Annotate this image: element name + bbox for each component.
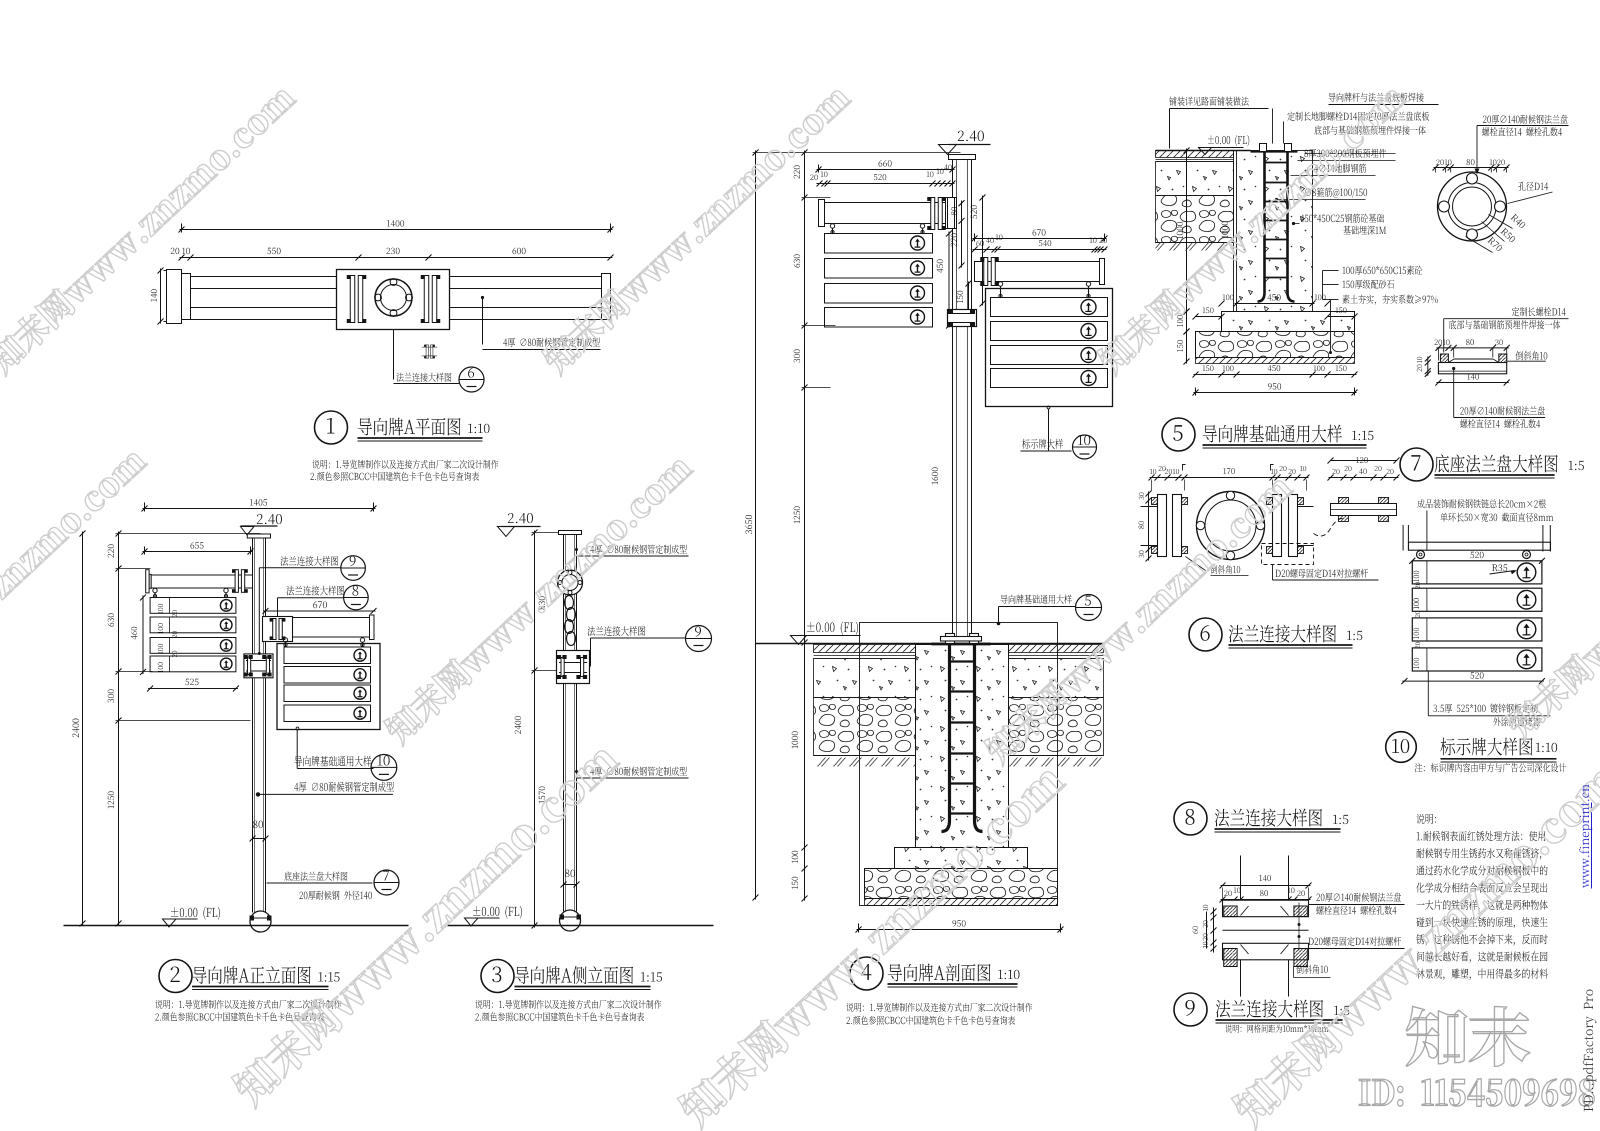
base flange front	[250, 911, 271, 932]
pole front	[247, 534, 270, 538]
title text 导向牌A侧立面图	[515, 986, 651, 988]
right panel frame section	[986, 289, 1113, 407]
flange plan dims	[1434, 167, 1509, 169]
base flange section detail 7 group	[1400, 319, 1569, 481]
left arm dim 660	[817, 169, 955, 171]
right arm dim 670	[973, 238, 1107, 240]
lower callouts d5	[1323, 270, 1339, 272]
dim 525	[148, 688, 238, 690]
d8 dim row2	[1221, 899, 1311, 901]
title circle 7	[1400, 448, 1433, 481]
d6 center flange circle	[1197, 492, 1265, 560]
flange plate pair left	[350, 276, 355, 323]
sign panel detail 10 group	[1386, 511, 1557, 763]
d8 pipe below	[1240, 960, 1242, 997]
d8 flange plates	[1223, 900, 1309, 917]
d6 right flange pair	[1273, 495, 1282, 557]
right arm dim row2	[973, 249, 1107, 251]
level 2.40 side	[501, 526, 541, 528]
title text 底座法兰盘大样图	[1435, 474, 1555, 476]
pole joint at arm	[946, 198, 957, 229]
dim 80 pole side	[564, 884, 577, 886]
d6 dim 170	[1185, 477, 1273, 479]
dim 80 pole front	[253, 838, 266, 840]
flange box plan	[337, 270, 450, 330]
callout pipe spec	[482, 298, 484, 345]
pole base plate section	[941, 637, 982, 642]
subsoil hatch right	[1009, 756, 1104, 768]
d6 left pipe	[1141, 506, 1158, 508]
subsoil hatch left	[814, 756, 916, 768]
dim 1400	[180, 229, 613, 231]
base flange side	[560, 910, 581, 931]
sign plate end (left)	[167, 270, 182, 324]
left panels group	[150, 598, 236, 614]
weathering steel notes block	[0, 0, 2, 2]
title circle 8	[1174, 802, 1207, 835]
d10 chain callout	[1426, 511, 1428, 551]
d6 dashed leader	[1314, 518, 1346, 536]
vertical dims right of pole	[961, 201, 963, 268]
d7 callout bolt	[1444, 318, 1569, 320]
d6 dashed box	[1262, 544, 1314, 565]
flange connection detail 8 group	[1174, 802, 1405, 997]
fineprint url	[1591, 803, 1593, 889]
gravel layer left	[814, 698, 916, 756]
flange plate pair right	[424, 276, 429, 323]
front elevation detail 2 group	[64, 503, 409, 993]
title circle 5	[1162, 418, 1195, 451]
level 0.00 section	[791, 635, 861, 637]
d8 bolt axis	[1298, 903, 1300, 951]
callout base flange 7	[267, 882, 373, 884]
title circle 2	[159, 960, 192, 993]
anchor bolts ladder	[942, 644, 950, 832]
d8 pipe above	[1240, 856, 1242, 901]
title text 导向牌A剖面图	[888, 983, 1018, 985]
d8 callouts	[1309, 904, 1405, 906]
foundation detail 5 group	[1156, 105, 1439, 452]
callout pipe spec front	[256, 792, 260, 796]
section dim chain	[804, 151, 806, 901]
dim 950 section	[857, 929, 1063, 931]
left panel hangers	[153, 588, 157, 592]
callout flange detail 6 leader	[393, 330, 395, 380]
callout sign detail 10	[1047, 406, 1050, 409]
callout flange 9 front	[259, 567, 340, 569]
ground line section	[756, 643, 1104, 645]
title circle 3	[481, 960, 514, 993]
d10 hangers	[1417, 551, 1425, 559]
d6 bolt label	[1273, 579, 1379, 581]
d6 top dims left	[1150, 477, 1187, 479]
arm right end cap	[370, 615, 375, 640]
center flange circle	[375, 279, 412, 316]
right arm flange	[984, 258, 988, 286]
title circle 4	[850, 957, 883, 990]
dim 140 vertical	[160, 269, 162, 324]
flange plan circles	[1438, 172, 1507, 241]
flange plan labels	[1477, 125, 1569, 127]
title circle 9	[1174, 993, 1207, 1026]
title circle 10	[1386, 732, 1417, 763]
arm left front	[151, 575, 252, 588]
gravel base	[865, 869, 1058, 899]
left dim chain 220/630/300/1250	[118, 532, 120, 926]
level 2.40 section	[949, 144, 991, 146]
d7 plate	[1438, 363, 1506, 374]
ground line front	[64, 925, 409, 927]
flange radius labels	[1489, 215, 1513, 229]
pole section	[949, 155, 976, 160]
base flange plan group	[1433, 126, 1569, 253]
concrete pier	[916, 645, 1009, 848]
section detail 4 group	[753, 145, 1113, 902]
d6 chamfer label	[1186, 557, 1206, 571]
left arm section	[825, 203, 953, 224]
top flange circle side	[558, 570, 583, 595]
title text 导向牌A平面图	[358, 437, 483, 439]
arm right flange box	[263, 617, 293, 642]
callout foundation 5	[999, 606, 1076, 608]
outer dim 3650	[755, 151, 757, 900]
level 0.00 detail5	[1199, 147, 1244, 149]
soil block left d5	[1156, 151, 1234, 158]
base hatch strip	[865, 899, 1058, 906]
plan view detail 1 group	[158, 224, 614, 445]
level 2.40 front	[241, 525, 278, 527]
section foundation group	[756, 623, 1104, 991]
footing dims d5 row150	[1196, 316, 1222, 318]
callout foundation 10 front	[296, 727, 299, 730]
callout flange 9 side	[591, 637, 686, 639]
gravel layer right	[1009, 698, 1104, 756]
title text 法兰连接大样图	[1215, 828, 1341, 830]
leader lines top d5	[1272, 109, 1274, 144]
pole side	[559, 531, 582, 535]
d8 bolts	[1224, 906, 1237, 917]
callout flange 8 front	[278, 597, 344, 599]
right arm section	[975, 262, 1100, 282]
d7 bottom dim 140	[1436, 382, 1508, 384]
arm mid flange	[235, 570, 238, 593]
pit pier d5	[1237, 151, 1313, 312]
right arm end cap	[1100, 259, 1105, 285]
dim 950 d5	[1194, 392, 1357, 394]
d7 leader flange	[1452, 367, 1455, 370]
anchor top plate	[932, 643, 991, 646]
title circle 1	[315, 411, 348, 444]
left panels section	[825, 234, 933, 254]
right hangers section	[998, 282, 1002, 286]
right panel frame	[277, 644, 380, 730]
flange detail 9 title group	[1174, 993, 1343, 1026]
d10 top bar	[1409, 542, 1551, 550]
d10 plate spec	[1427, 671, 1429, 716]
d6 small detail dims	[1329, 477, 1399, 479]
d8 left dims	[1213, 908, 1215, 953]
left arm flange	[931, 198, 935, 230]
right pipe cap	[602, 274, 611, 320]
mid flange box side	[557, 651, 590, 684]
pipe body plan	[191, 277, 611, 320]
mid pole flange section	[948, 310, 977, 327]
ground line detail5	[1156, 150, 1251, 152]
d10 R35 label	[1490, 571, 1515, 575]
footing dims bottom d5	[1194, 374, 1357, 376]
flange connection detail 6 group	[1141, 458, 1400, 652]
left pipe cap	[182, 274, 191, 320]
title text 导向牌A正立面图	[192, 986, 328, 988]
title text 导向牌基础通用大样	[1203, 444, 1367, 446]
ladder d5	[1258, 144, 1265, 302]
side elevation detail 3 group	[448, 527, 714, 993]
bubble 6	[459, 367, 484, 392]
callout pipe spec side top	[575, 548, 578, 551]
dim 460	[142, 596, 144, 675]
pavement hatch left	[814, 645, 916, 653]
d6 top dims right	[1271, 477, 1309, 479]
left arm end cap	[819, 200, 825, 227]
title text 法兰连接大样图	[1229, 644, 1353, 646]
excavation outline	[860, 623, 1058, 906]
pole mid flange box	[244, 654, 273, 678]
pavement hatch right	[1009, 645, 1104, 653]
d6 right pipe	[1298, 506, 1314, 508]
arm right front	[267, 618, 374, 638]
callout texts d5	[1329, 104, 1439, 106]
outer dims d5	[1186, 149, 1188, 314]
callout pipe spec side lower	[575, 770, 578, 773]
dim 1405	[143, 508, 376, 510]
dim 520 section right	[982, 196, 984, 306]
d7 top dims	[1436, 347, 1508, 349]
d6 small detail top right	[1331, 498, 1397, 522]
arm left end cap	[149, 574, 151, 588]
dim 655	[143, 551, 253, 553]
footing pad	[895, 848, 1028, 869]
paving callout	[1170, 108, 1269, 110]
dim row 550/230/600	[180, 257, 613, 259]
d10 dim 520 bottom	[1402, 680, 1544, 682]
chain links side	[565, 596, 574, 610]
d7 bolts	[1440, 354, 1448, 363]
dim 670	[264, 610, 376, 612]
left arm dim row2	[817, 183, 955, 185]
d7 left dims	[1427, 357, 1429, 376]
d6 left flange pair	[1158, 495, 1167, 557]
left panel hangers section	[830, 224, 834, 228]
dim 450 section	[948, 232, 950, 328]
outer dim 2400	[82, 532, 84, 926]
d8 dim 140	[1221, 885, 1311, 887]
footing dims d5 row1	[1235, 303, 1315, 305]
dim 150 section	[968, 282, 970, 315]
title text 法兰连接大样图	[1216, 1019, 1343, 1021]
title circle 6	[1189, 618, 1222, 651]
d6 left dims	[1148, 492, 1150, 561]
tiny flange icon below	[422, 345, 437, 358]
d7 chamfer label	[1507, 360, 1545, 362]
ground line side	[448, 925, 714, 927]
right panel hangers	[283, 638, 287, 642]
d10 dim 520 top	[1409, 558, 1415, 564]
soil concrete layer right	[1009, 659, 1104, 698]
d10 panels	[1412, 561, 1542, 584]
soil concrete layer left	[814, 659, 916, 698]
footing d5	[1222, 312, 1355, 332]
dim chain side 830/1570 2400	[534, 531, 536, 928]
